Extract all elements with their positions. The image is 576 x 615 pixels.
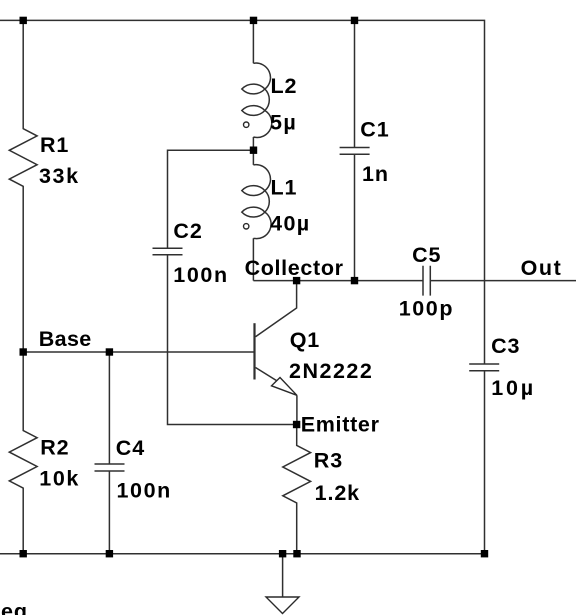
svg-text:Collector: Collector: [245, 256, 344, 280]
svg-text:100n: 100n: [173, 263, 228, 287]
svg-text:40µ: 40µ: [270, 211, 311, 235]
svg-text:100n: 100n: [117, 478, 172, 502]
svg-text:2N2222: 2N2222: [289, 359, 373, 383]
svg-text:10k: 10k: [39, 467, 80, 491]
svg-text:1n: 1n: [362, 162, 389, 186]
svg-text:5µ: 5µ: [270, 110, 297, 134]
svg-text:100p: 100p: [399, 296, 454, 320]
svg-text:L1: L1: [271, 176, 298, 200]
svg-text:eg: eg: [1, 600, 28, 615]
svg-text:Base: Base: [39, 327, 92, 351]
svg-text:10µ: 10µ: [491, 376, 536, 400]
svg-text:R2: R2: [40, 435, 69, 459]
svg-text:C2: C2: [173, 219, 202, 243]
svg-text:C1: C1: [360, 118, 389, 142]
svg-text:33k: 33k: [39, 164, 80, 188]
svg-text:Emitter: Emitter: [301, 413, 380, 437]
svg-text:C4: C4: [116, 436, 145, 460]
svg-text:Q1: Q1: [290, 328, 320, 352]
svg-text:1.2k: 1.2k: [315, 481, 360, 505]
svg-text:R1: R1: [40, 133, 69, 157]
svg-text:Out: Out: [521, 256, 563, 280]
svg-text:L2: L2: [271, 74, 298, 98]
svg-text:R3: R3: [314, 449, 343, 473]
svg-text:C5: C5: [412, 243, 441, 267]
svg-text:C3: C3: [491, 334, 520, 358]
